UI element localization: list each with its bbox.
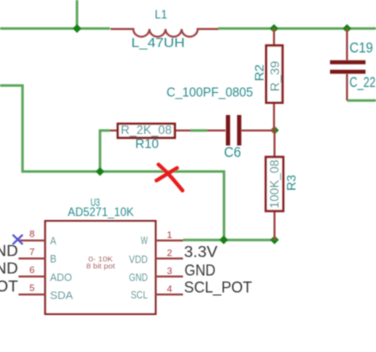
svg-text:3: 3	[167, 266, 172, 277]
pin 1 stub (W)	[156, 240, 183, 242]
svg-text:R3: R3	[285, 174, 299, 190]
wire R10 to C6	[190, 129, 207, 132]
svg-text:B: B	[50, 254, 57, 266]
capacitor C19	[330, 29, 366, 101]
svg-text:6: 6	[29, 265, 34, 276]
wire R10 branch	[100, 131, 110, 172]
svg-text:VDD: VDD	[129, 254, 148, 266]
svg-text:C6: C6	[224, 145, 241, 161]
svg-text:W: W	[141, 235, 148, 247]
svg-text:100K_08: 100K_08	[270, 160, 282, 209]
svg-text:1: 1	[167, 230, 172, 241]
svg-text:R2: R2	[253, 64, 267, 81]
svg-text:5: 5	[29, 283, 34, 294]
svg-text:GND: GND	[185, 262, 216, 279]
svg-text:AD5271_10K: AD5271_10K	[68, 205, 134, 219]
junction R10 branch	[96, 167, 105, 176]
wire pin W row	[183, 239, 275, 242]
svg-text:7: 7	[29, 247, 34, 258]
svg-text:L_47UH: L_47UH	[131, 36, 185, 50]
resistor R2	[266, 29, 282, 131]
svg-text:ADO: ADO	[50, 272, 72, 284]
wire top-left horizontal	[0, 27, 110, 30]
svg-text:C_22: C_22	[350, 75, 376, 91]
no-connect X on pin 8	[13, 235, 23, 245]
svg-text:R_39: R_39	[270, 61, 282, 92]
svg-text:SCL_POT: SCL_POT	[184, 280, 252, 297]
svg-text:8 bit pot: 8 bit pot	[86, 262, 116, 271]
svg-text:SDA: SDA	[50, 290, 74, 302]
wire top-right horizontal	[218, 27, 376, 30]
wire bottom-right	[347, 99, 376, 102]
svg-text:SCL: SCL	[131, 290, 148, 302]
junction C6-R2-R3 node	[270, 126, 279, 135]
resistor R3	[266, 130, 283, 240]
pin 6 stub (ADO)	[19, 276, 46, 278]
wire left L-shape	[0, 86, 224, 241]
pin 2 stub (VDD)	[156, 258, 183, 260]
svg-text:POT: POT	[0, 278, 18, 295]
inductor L1	[111, 29, 219, 37]
svg-text:R_2K_08: R_2K_08	[121, 125, 172, 137]
svg-text:R10: R10	[135, 137, 159, 151]
pin 4 stub (SCL)	[156, 294, 183, 296]
capacitor C6	[207, 115, 275, 146]
IC U3 body	[45, 221, 155, 314]
junction R3 bottom node	[270, 236, 279, 245]
junction pin W node	[219, 236, 228, 245]
svg-text:GND: GND	[0, 260, 18, 277]
IC U3 inner description text	[86, 254, 116, 270]
svg-text:C19: C19	[350, 41, 374, 57]
svg-text:C_100PF_0805: C_100PF_0805	[167, 84, 254, 99]
pin 5 stub (SDA)	[19, 294, 46, 296]
junction R2 top	[270, 24, 279, 33]
resistor R10	[110, 124, 191, 138]
svg-text:8: 8	[29, 229, 34, 240]
svg-text:4: 4	[167, 284, 172, 295]
svg-text:A: A	[50, 236, 57, 248]
svg-text:L1: L1	[155, 8, 168, 22]
junction top-left	[73, 24, 82, 33]
svg-text:GND: GND	[0, 243, 18, 260]
svg-text:3.3V: 3.3V	[184, 244, 218, 261]
svg-text:2: 2	[167, 248, 172, 259]
pin 3 stub (GND)	[156, 276, 183, 278]
red X annotation mark	[157, 165, 183, 191]
wire top vertical drop	[76, 0, 79, 29]
junction C19 top	[343, 24, 352, 33]
pin 8 stub (A)	[19, 240, 46, 242]
pin 7 stub (B)	[19, 258, 46, 260]
svg-text:GND: GND	[129, 272, 148, 284]
